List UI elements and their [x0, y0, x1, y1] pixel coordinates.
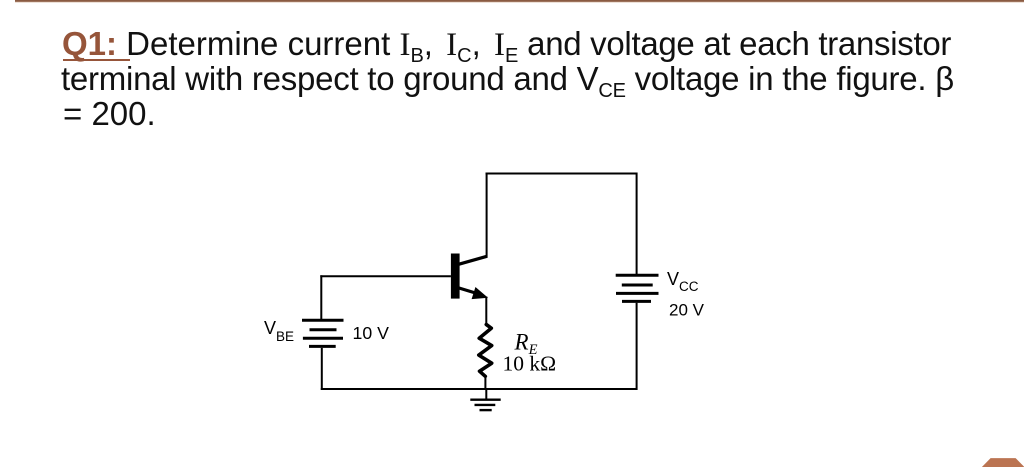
battery VCC plate short — [622, 284, 653, 287]
title line 3 — [63, 96, 156, 131]
wire: collector riser — [486, 173, 488, 258]
battery VBE plate short — [310, 328, 337, 331]
top divider rule — [15, 0, 1024, 3]
transistor Q1 collector arm — [459, 256, 487, 264]
wire: emitter lead to resistor — [485, 297, 487, 326]
wire: bottom rail — [321, 388, 638, 390]
ground stem — [485, 388, 487, 400]
wire: left branch upper — [320, 275, 322, 319]
ground bar 1 — [470, 399, 500, 401]
battery VBE plate short bottom — [309, 345, 336, 348]
wire: left branch lower — [321, 348, 323, 390]
ground bar 2 — [475, 404, 496, 406]
transistor Q1 base bar — [451, 254, 460, 299]
battery VBE plate long top — [302, 319, 344, 322]
battery VCC plate long top — [616, 274, 659, 277]
battery VCC plate long — [616, 292, 659, 295]
wire: base lead — [320, 275, 451, 277]
transistor Q1 emitter arrowhead — [472, 288, 487, 299]
transistor Q1 emitter arm — [459, 288, 478, 294]
ground bar 3 — [480, 409, 492, 411]
wire: resistor bottom lead — [484, 376, 486, 391]
resistor RE zigzag — [479, 325, 492, 377]
wire: top rail from collector to VCC — [486, 173, 638, 175]
battery VBE plate long — [303, 337, 343, 340]
title line 1 — [62, 26, 951, 67]
Q1 underline — [63, 59, 131, 61]
wire: right branch upper — [636, 173, 638, 275]
wire: right branch lower — [636, 303, 638, 390]
battery VCC plate short bottom — [622, 300, 651, 303]
title line 2 — [61, 61, 954, 102]
